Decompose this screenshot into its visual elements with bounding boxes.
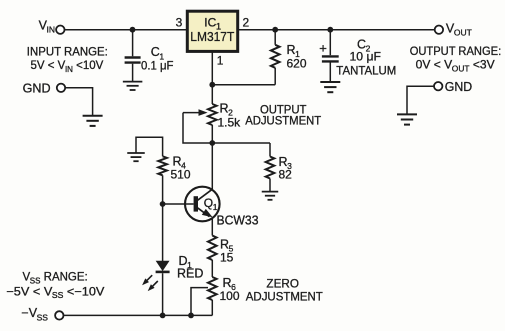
ground [123,82,143,90]
label GND left [23,80,51,95]
value 1.5k [218,116,242,130]
svg-text:100: 100 [220,289,240,303]
label C1 [151,45,165,61]
wire [65,88,92,116]
wire [162,204,164,262]
wire [212,142,270,144]
svg-text:BCW33: BCW33 [217,214,259,228]
wire [274,68,276,85]
wire [212,84,275,86]
node C1 tap [130,27,136,33]
transistor Q1 [185,187,220,222]
svg-text:OUTPUT RANGE:: OUTPUT RANGE: [410,46,502,58]
svg-text:620: 620 [287,57,307,71]
pin 1 label [217,54,224,68]
label GND right [445,79,473,94]
svg-text:510: 510 [171,168,191,182]
svg-text:INPUT RANGE:: INPUT RANGE: [27,46,108,58]
svg-text:3: 3 [176,15,183,29]
wire [239,29,435,31]
resistor R5 [208,236,217,261]
svg-text:ADJUSTMENT: ADJUSTMENT [245,116,321,128]
ground [397,114,417,124]
wire [269,179,271,192]
value 82 [279,168,293,182]
node R1 tap [272,27,278,33]
label R6 [223,276,237,292]
node ADJ [209,82,215,88]
label -VSS [21,306,48,322]
svg-text:TANTALUM: TANTALUM [336,66,396,78]
label R4 [173,155,187,171]
label R2 [220,102,234,118]
wire [132,30,134,57]
wire [162,175,164,204]
potentiometer R2 [208,104,217,125]
label RED [177,267,203,281]
label C2 [357,38,371,54]
value 10uF [350,49,382,63]
svg-text:RED: RED [177,267,203,281]
wire [163,203,194,205]
led D1 [156,261,170,272]
wire [211,143,213,190]
led arrows [142,275,158,291]
wire [65,29,187,31]
svg-text:10 μF: 10 μF [350,49,382,63]
svg-text:ADJUSTMENT: ADJUSTMENT [246,292,323,304]
value 0.1uF [141,58,174,72]
text output adjustment [245,104,321,127]
node R6 wiper [188,313,194,319]
wire [407,86,434,114]
pin 3 label [176,15,183,29]
resistor R1 [271,45,280,68]
capacitor C2 plus [319,40,327,55]
label V_OUT [446,21,472,37]
ground [262,192,279,200]
wire [64,314,213,316]
terminal GND right [434,82,442,90]
text input range [27,46,108,74]
pin 2 label [243,15,250,29]
text vss range [6,271,104,300]
wire [183,113,212,143]
svg-text:GND: GND [445,79,473,94]
svg-text:+: + [319,40,327,55]
label V_IN [39,18,55,34]
terminal -VSS [55,311,63,319]
potentiometer R6 [208,277,217,300]
label D1 [179,254,193,270]
wire [329,63,331,82]
wire [211,260,213,277]
node C2 tap [327,27,333,33]
svg-text:LM317T: LM317T [190,29,234,44]
wire [211,85,213,104]
label R5 [220,238,234,254]
text tantalum [336,66,396,78]
wire [211,217,213,235]
value 620 [287,57,307,71]
node wiper [209,140,215,146]
label Q1 [204,196,218,212]
wiper arrow R2 [183,109,208,116]
text zero adjustment [246,279,323,304]
resistor R4 [158,156,167,175]
svg-text:15: 15 [220,251,234,265]
svg-text:1.5k: 1.5k [218,116,242,130]
text output range [410,46,502,73]
label R1 [287,43,301,59]
wire [132,64,134,82]
value 510 [171,168,191,182]
wire [211,51,213,84]
wire [136,137,163,156]
wire [274,30,276,45]
ground [127,153,145,161]
capacitor C2 [322,56,339,61]
wire [211,300,213,315]
terminal V_OUT [435,26,443,34]
label BCW33 [217,214,259,228]
node base [160,201,166,207]
svg-text:0.1 μF: 0.1 μF [141,58,174,72]
label R3 [279,155,293,171]
svg-text:ZERO: ZERO [266,279,299,291]
svg-text:GND: GND [23,80,51,95]
ground [83,116,103,126]
svg-text:2: 2 [243,15,250,29]
wire [211,125,213,143]
terminal GND left [57,84,65,92]
resistor R3 [266,157,275,179]
ground [320,82,340,92]
capacitor C1 [125,58,141,63]
svg-text:82: 82 [279,168,293,182]
op-amp U1 / IC1 LM317T box [187,11,237,51]
wire [162,273,164,315]
value 15 [220,251,234,265]
terminal V_IN [56,26,64,34]
wire [191,288,208,316]
wire [329,30,331,56]
node D1 cathode [160,313,166,319]
wire [269,143,271,157]
svg-text:1: 1 [217,54,224,68]
value 100 [220,289,240,303]
